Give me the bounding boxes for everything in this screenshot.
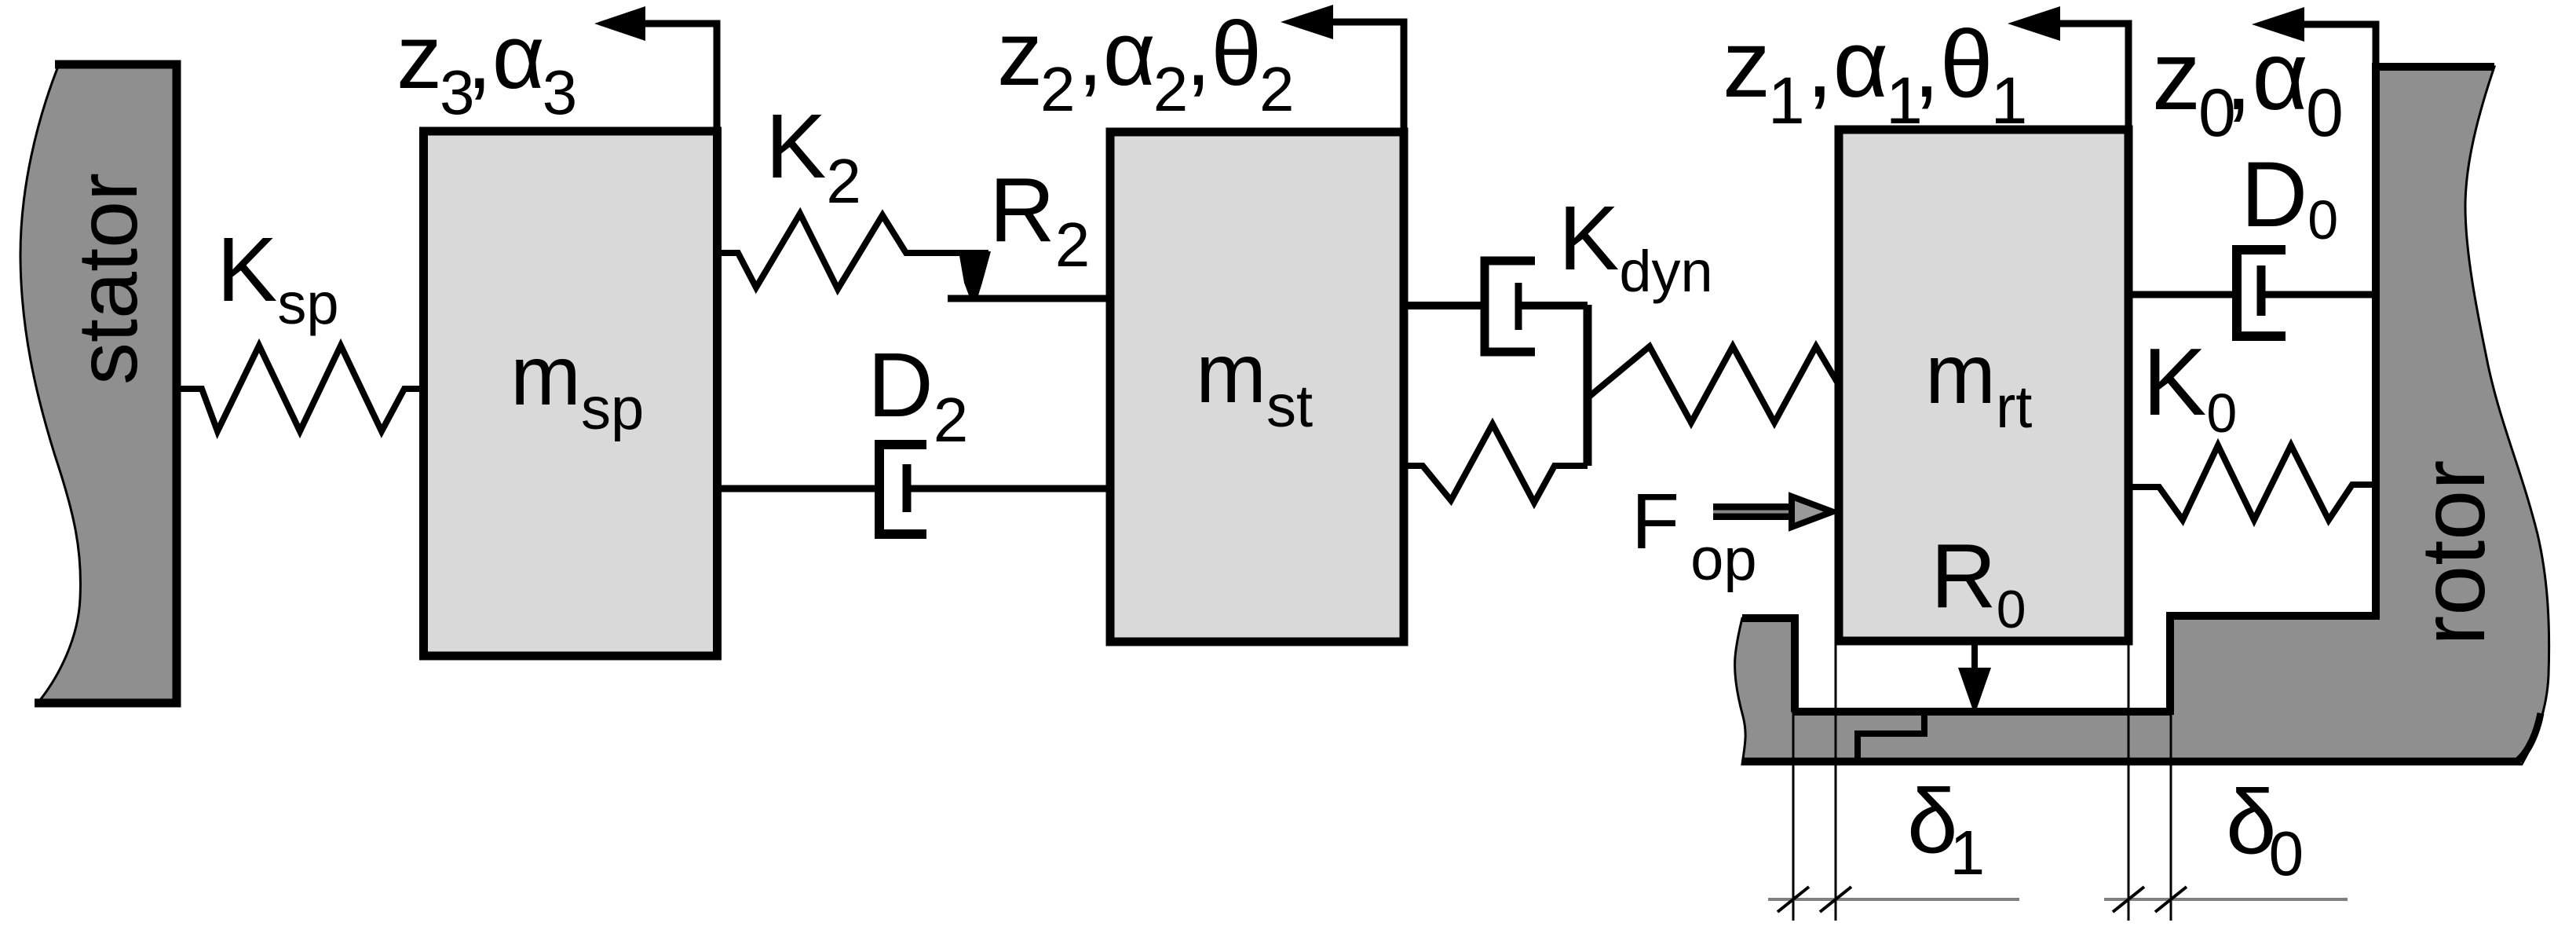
arrow z0 (above rotor) — [2252, 7, 2376, 71]
mass m_sp — [424, 131, 718, 656]
arrow z3 (above m_sp) — [594, 6, 717, 130]
damper D0 — [2128, 250, 2376, 336]
friction contact R2 (arrow + contact line) — [948, 251, 1110, 298]
arrow z1 (above m_rt) — [2008, 6, 2128, 130]
damper D2 — [720, 445, 1110, 534]
rotor inner step line — [1858, 712, 1924, 761]
stator wall — [20, 64, 177, 703]
arrow R0 (reaction force) — [1958, 644, 1991, 715]
mass m_st — [1110, 132, 1404, 642]
svg-text:rotor: rotor — [2403, 460, 2504, 646]
spring K2 — [720, 214, 988, 289]
rotor wall (body + lower arm) — [1735, 67, 2549, 764]
svg-text:stator: stator — [60, 173, 155, 385]
dimension delta0 — [2104, 643, 2348, 921]
spring Ksp — [177, 346, 423, 431]
mass m_rt — [1839, 130, 2128, 641]
junction bar — [1584, 305, 1592, 466]
damper Kdyn (top branch) — [1404, 261, 1588, 352]
spring K0 — [2128, 445, 2376, 520]
dimension delta1 — [1768, 643, 2019, 921]
spring Kdyn to m_rt — [1589, 346, 1839, 423]
arrow z2 (above m_st) — [1281, 5, 1404, 128]
spring (lower branch of Kdyn) — [1404, 424, 1588, 503]
force Fop arrow — [1713, 496, 1832, 527]
